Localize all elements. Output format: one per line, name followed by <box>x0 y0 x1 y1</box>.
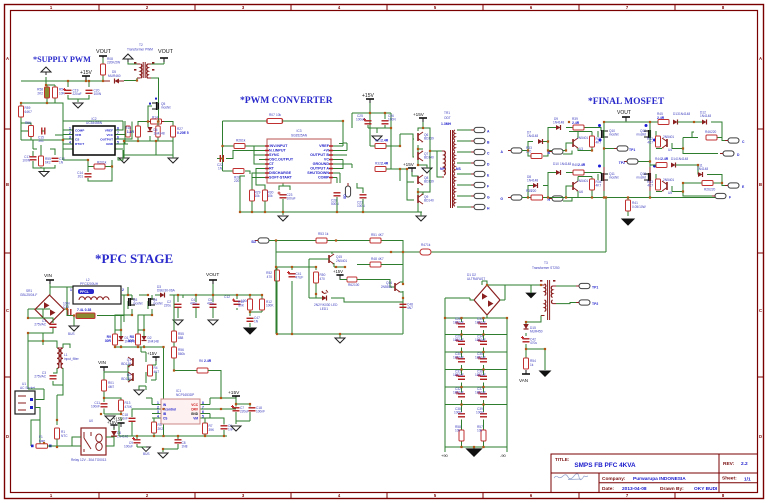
capacitor C47 1N <box>247 318 254 321</box>
svg-text:*SUPPLY PWM: *SUPPLY PWM <box>33 55 91 64</box>
capacitor C1 275VAC <box>50 324 57 327</box>
capacitor C42 470u <box>523 339 530 342</box>
svg-text:+15V: +15V <box>228 390 240 396</box>
capacitor C11 100nF <box>101 404 108 407</box>
wire bridge to T3 <box>445 281 541 318</box>
svg-text:4M7: 4M7 <box>108 385 114 389</box>
svg-text:VIN: VIN <box>44 273 53 279</box>
svg-text:R48: R48 <box>371 257 377 261</box>
svg-text:MUR450: MUR450 <box>530 330 543 334</box>
capacitor C12 100uF <box>234 301 241 304</box>
mosfet Q4 <box>149 298 156 306</box>
resistor R57b 10k <box>481 430 486 441</box>
capacitor C6 1nF <box>221 426 228 429</box>
mosfet Q5 <box>152 102 159 110</box>
resistor R52 470 <box>275 270 280 281</box>
resistor R6 2.4R <box>197 368 208 373</box>
transformer T2 <box>137 62 151 78</box>
wire SD rail y240.5 <box>269 241 403 268</box>
svg-text:470: 470 <box>267 275 273 279</box>
svg-text:GND: GND <box>191 412 199 416</box>
ground below R16/D4 <box>119 158 129 163</box>
capacitor C39 100N <box>480 414 487 417</box>
svg-text:+15V: +15V <box>147 351 157 356</box>
ground LED bottom <box>335 338 345 343</box>
resistor R21 <box>156 126 161 137</box>
svg-text:470: 470 <box>320 277 326 281</box>
svg-text:R53: R53 <box>318 232 324 236</box>
resistor R48 4K7 <box>370 262 381 267</box>
svg-text:470u: 470u <box>190 302 197 306</box>
svg-text:CT: CT <box>269 162 275 166</box>
svg-text:4: 4 <box>157 415 159 419</box>
ground T3 chain <box>540 371 551 376</box>
transistor U4 2N5401 <box>662 138 667 148</box>
svg-text:SD: SD <box>343 194 347 199</box>
svg-text:VREF: VREF <box>105 129 113 133</box>
svg-text:TITLE:: TITLE: <box>555 457 570 462</box>
transistor U5 2N5401 <box>662 181 667 191</box>
capacitor C22 1N <box>220 155 223 162</box>
svg-text:VCC: VCC <box>106 133 113 137</box>
svg-text:100N: 100N <box>454 411 462 415</box>
resistor R58b 10k <box>459 430 464 441</box>
ground below R27 <box>168 158 178 163</box>
svg-text:U6: U6 <box>579 190 583 194</box>
mosfet Q12 <box>644 130 651 138</box>
IC2 box UC3845BN <box>73 126 115 155</box>
output oval C <box>725 138 739 143</box>
svg-text:1800uF: 1800uF <box>453 356 464 360</box>
diode D10 1N4148 <box>556 170 561 175</box>
svg-text:4K7: 4K7 <box>647 184 653 188</box>
wire to D11 and E oval <box>650 165 728 196</box>
svg-text:1800uF: 1800uF <box>475 391 486 395</box>
ground BUS below R2 <box>69 326 79 331</box>
svg-text:COMP: COMP <box>318 176 330 180</box>
svg-text:mosfet: mosfet <box>609 176 619 180</box>
svg-text:PFCL: PFCL <box>80 290 89 294</box>
diode D15 MUR450 <box>524 325 529 330</box>
frame column ticks top <box>99 5 675 11</box>
output connector ovals A-H <box>471 127 485 132</box>
svg-text:1800uF: 1800uF <box>475 356 486 360</box>
svg-text:+15V: +15V <box>403 162 415 167</box>
common mode choke L1 <box>28 309 53 341</box>
svg-text:mosfet: mosfet <box>636 176 646 180</box>
svg-text:2: 2 <box>69 131 71 135</box>
capacitor C35 1800uF <box>480 359 487 362</box>
resistor R7 39K <box>203 423 208 434</box>
capacitor C25 100uF <box>365 121 372 124</box>
resistor R10 80K <box>248 299 253 310</box>
svg-text:VOUT: VOUT <box>206 272 219 278</box>
transistor Q2 BD140 <box>128 372 133 382</box>
svg-text:220: 220 <box>531 189 537 193</box>
mosfet Q3 <box>129 298 136 306</box>
ground below C47 black <box>244 328 256 334</box>
resistor R2 shunt <box>76 313 95 319</box>
frame row letters <box>6 56 762 439</box>
svg-text:10k: 10k <box>276 113 282 117</box>
svg-text:2N5401: 2N5401 <box>663 135 674 139</box>
svg-text:A: A <box>6 56 9 61</box>
svg-text:2013-04-08: 2013-04-08 <box>622 486 647 492</box>
svg-text:R14: R14 <box>152 116 158 120</box>
svg-text:1k: 1k <box>427 243 431 247</box>
resistor R28 220 <box>233 169 244 174</box>
bottom rail <box>240 176 422 215</box>
svg-text:NS: NS <box>456 167 461 171</box>
svg-text:1N: 1N <box>218 167 223 171</box>
bridge rectifier SR1 <box>35 295 64 324</box>
svg-text:2N5401: 2N5401 <box>663 178 674 182</box>
svg-text:*PWM CONVERTER: *PWM CONVERTER <box>240 95 334 106</box>
wire VIN to bridge/L2 <box>28 284 128 341</box>
resistor R13 470K <box>119 400 124 411</box>
wire socket to fuse/relay <box>31 389 44 446</box>
resistor R27 <box>171 126 176 137</box>
svg-text:2N5551: 2N5551 <box>381 285 392 289</box>
capacitor C23 100uF <box>280 195 287 198</box>
diode D11 1N4148 <box>698 172 703 177</box>
svg-text:220: 220 <box>711 130 717 134</box>
frame row ticks left and right <box>5 129 764 377</box>
svg-text:VOUT: VOUT <box>96 49 112 55</box>
svg-text:47UF: 47UF <box>296 276 304 280</box>
capacitor C37 1800uF <box>480 394 487 397</box>
supply arrow <box>41 67 51 75</box>
svg-text:201: 201 <box>78 175 84 179</box>
svg-text:470K: 470K <box>125 405 133 409</box>
svg-text:SG3525AN: SG3525AN <box>291 134 308 138</box>
svg-text:TP1: TP1 <box>592 286 598 290</box>
svg-text:RT: RT <box>269 167 275 171</box>
svg-text:1k: 1k <box>325 232 329 236</box>
svg-text:INV.INPUT: INV.INPUT <box>270 144 289 148</box>
svg-text:10k: 10k <box>268 194 274 198</box>
resistor R55 divider <box>174 295 197 371</box>
svg-text:UC3845BN: UC3845BN <box>86 121 103 125</box>
ground BUS below C9 <box>142 447 151 452</box>
svg-text:7.4L 0.38: 7.4L 0.38 <box>77 308 91 312</box>
svg-text:1: 1 <box>69 127 71 131</box>
svg-text:2N5401: 2N5401 <box>577 136 588 140</box>
svg-text:OUTPUT A: OUTPUT A <box>310 167 329 171</box>
svg-text:+90: +90 <box>441 453 449 458</box>
mosfet Q11 <box>602 173 609 181</box>
capacitor C15 <box>42 128 45 135</box>
resistor R15 <box>126 126 131 137</box>
svg-text:500N: 500N <box>331 202 339 206</box>
svg-text:220K/2W: 220K/2W <box>107 61 120 65</box>
svg-text:2.2: 2.2 <box>741 461 748 467</box>
wire Q11/Q13 <box>545 171 715 198</box>
svg-text:SYNC: SYNC <box>269 153 280 157</box>
resistor R44 2.4R <box>656 163 667 168</box>
svg-text:input_filter: input_filter <box>64 357 80 361</box>
svg-text:6: 6 <box>202 410 204 414</box>
svg-text:4K7: 4K7 <box>596 184 602 188</box>
svg-text:1.4R: 1.4R <box>127 130 135 134</box>
transistor Q8 BD139 <box>418 175 423 185</box>
diode D12 1N4148 <box>702 120 707 125</box>
capacitor C38 100N <box>458 414 465 417</box>
svg-text:1N4148: 1N4148 <box>700 114 711 118</box>
resistor R54 1k <box>524 358 529 369</box>
svg-text:1k: 1k <box>242 139 246 143</box>
relay U0 <box>81 428 106 455</box>
capacitor C7 220uF <box>233 408 240 411</box>
capacitor C19 220uF <box>65 90 72 93</box>
frame column ticks bottom <box>99 493 675 499</box>
resistor R07 10k <box>267 119 282 124</box>
resistor R08 220K/2W <box>101 64 106 75</box>
resistor R58 <box>45 87 50 98</box>
svg-text:2.4R: 2.4R <box>381 162 389 166</box>
svg-text:mosfet: mosfet <box>161 106 171 110</box>
phase A input oval <box>508 148 522 153</box>
resistor R36 4K7 <box>590 179 595 190</box>
wire rail y252 <box>276 252 403 254</box>
svg-text:100: 100 <box>354 283 360 287</box>
svg-text:2.4R: 2.4R <box>381 139 389 143</box>
svg-text:B: B <box>759 182 762 187</box>
fuse F1 <box>36 444 48 449</box>
resistor R41 0.05/10W <box>627 198 629 217</box>
resistor R57 <box>53 87 58 98</box>
resistor R29 10k <box>250 190 255 201</box>
svg-text:Sheet:: Sheet: <box>722 476 737 482</box>
phase B input oval <box>508 195 522 200</box>
ground below C19/C20 <box>73 103 83 108</box>
gate drive R9/D1 R8/D2 <box>115 309 164 347</box>
svg-text:1: 1 <box>157 401 159 405</box>
capacitor C18c 100nF <box>249 408 256 411</box>
capacitor C21 100N <box>360 195 367 198</box>
svg-text:TP2: TP2 <box>592 302 598 306</box>
svg-text:8: 8 <box>117 127 119 131</box>
svg-text:275VAC: 275VAC <box>34 323 46 327</box>
IC3 pin stubs right <box>331 121 352 183</box>
transistor Q1 BD139 <box>128 357 133 367</box>
svg-text:Transformer PWM: Transformer PWM <box>127 48 153 52</box>
inductor L2 PFC3200UH <box>73 286 121 304</box>
svg-text:+15V: +15V <box>333 269 343 274</box>
svg-text:T2: T2 <box>139 43 143 47</box>
IC2 outer wire box <box>63 121 123 160</box>
wire VOUT top rail <box>604 121 650 129</box>
transistor U6 2N5401 <box>573 181 578 191</box>
IC2 pin stub wires <box>63 121 132 149</box>
svg-text:6K2: 6K2 <box>45 161 51 165</box>
svg-text:D: D <box>6 434 9 439</box>
ground bank bottom <box>467 449 481 456</box>
svg-text:A: A <box>759 56 762 61</box>
svg-text:DSEI30-06A: DSEI30-06A <box>157 289 176 293</box>
svg-text:BD140: BD140 <box>121 377 131 381</box>
resistor R45 2.4R <box>658 120 669 125</box>
svg-text:100n: 100n <box>63 302 70 306</box>
svg-text:R6: R6 <box>199 359 203 363</box>
diode D5 MUR460 <box>103 80 124 82</box>
svg-text:4K7: 4K7 <box>154 370 160 374</box>
svg-text:GND: GND <box>106 142 114 146</box>
capacitor C16 1N <box>52 158 59 161</box>
svg-text:888: 888 <box>178 336 184 340</box>
cap bank rails <box>445 318 507 452</box>
svg-text:+VI: +VI <box>323 149 329 153</box>
capacitor C3 275VAC <box>50 376 57 379</box>
resistor R55 <box>39 156 44 166</box>
svg-text:7: 7 <box>202 406 204 410</box>
svg-text:VOUT: VOUT <box>158 49 174 55</box>
svg-text:GROUND: GROUND <box>313 162 330 166</box>
wires Q6/Q7 <box>400 122 437 164</box>
capacitor C34 1800uF <box>480 341 487 344</box>
svg-text:1N4148: 1N4148 <box>527 134 538 138</box>
svg-text:SMPS FB PFC 4KVA: SMPS FB PFC 4KVA <box>574 462 636 469</box>
svg-text:0.20E 5: 0.20E 5 <box>177 131 189 135</box>
svg-text:D10: D10 <box>553 162 559 166</box>
capacitor C28 1800uF <box>458 324 465 327</box>
wire B to driver <box>522 173 601 202</box>
capacitor C2 220u <box>175 304 182 307</box>
resistor R20 1k <box>88 160 112 167</box>
svg-text:1N4148: 1N4148 <box>154 132 165 136</box>
ground center bottom <box>158 453 168 458</box>
TR1 secondary tap wires <box>457 130 474 207</box>
svg-text:80K: 80K <box>238 304 245 308</box>
capacitor C36 1800uF <box>480 376 487 379</box>
wire T3 secondary to TP ovals <box>556 286 579 304</box>
wire R2 row <box>67 309 124 326</box>
svg-text:1: 1 <box>70 288 72 292</box>
capacitor C8 1N8 <box>175 440 182 443</box>
svg-text:7: 7 <box>117 131 119 135</box>
svg-text:2.4R: 2.4R <box>578 163 586 167</box>
svg-text:100nF: 100nF <box>91 405 100 409</box>
svg-text:C: C <box>759 308 762 313</box>
svg-text:TP2: TP2 <box>619 161 625 165</box>
resistor R12 100K <box>260 299 265 310</box>
svg-text:+15V: +15V <box>413 112 425 117</box>
svg-text:SD: SD <box>251 240 256 244</box>
capacitor C28 500N <box>334 193 341 196</box>
capacitor C29 1800uF <box>458 341 465 344</box>
svg-text:LED1: LED1 <box>320 307 328 311</box>
svg-text:1800uF: 1800uF <box>453 373 464 377</box>
resistor R30 10k <box>263 190 268 201</box>
wire VOUT to R08 <box>102 58 104 81</box>
capacitor C14 <box>88 167 112 182</box>
svg-text:U4: U4 <box>668 148 672 152</box>
svg-text:IC3: IC3 <box>297 129 302 133</box>
diode D8 1N4148 <box>533 183 538 188</box>
resistor R47b 220 <box>702 181 713 186</box>
svg-text:100N: 100N <box>22 159 30 163</box>
svg-text:DRV: DRV <box>191 408 199 412</box>
svg-text:T3: T3 <box>544 261 548 265</box>
capacitor C31 1800uF <box>458 376 465 379</box>
title block frame <box>551 454 758 493</box>
svg-text:1800uF: 1800uF <box>475 338 486 342</box>
transformer T3 <box>541 280 556 320</box>
resistor R46 220 <box>706 135 717 140</box>
capacitor C32 1800uF <box>458 394 465 397</box>
resistor R01 4M7 <box>102 380 107 391</box>
svg-text:64K7: 64K7 <box>25 110 33 114</box>
svg-text:VCC: VCC <box>191 403 198 407</box>
ground below C7 <box>231 426 241 431</box>
svg-text:VM: VM <box>193 417 198 421</box>
svg-text:G: G <box>500 197 503 201</box>
svg-text:275VAC: 275VAC <box>34 375 46 379</box>
IC1 box NCP1653DP <box>146 398 221 418</box>
resistor R51 4K7 <box>370 238 381 243</box>
svg-text:R56: R56 <box>25 121 31 125</box>
ground bottom <box>416 216 426 221</box>
resistor R59 <box>19 106 24 117</box>
mosfet Q10 <box>602 130 609 138</box>
svg-text:30R: 30R <box>128 339 135 343</box>
svg-text:220: 220 <box>234 179 240 183</box>
resistor R31 2.4R <box>375 144 386 149</box>
svg-text:1800uF: 1800uF <box>475 321 486 325</box>
wire long drop to PFC rail <box>436 198 606 253</box>
svg-text:1N4148: 1N4148 <box>677 157 688 161</box>
svg-text:VOUT: VOUT <box>617 110 631 116</box>
svg-text:REV:: REV: <box>723 461 735 467</box>
svg-text:VC: VC <box>324 158 329 162</box>
svg-text:R51: R51 <box>371 233 377 237</box>
svg-text:VAN: VAN <box>519 378 528 383</box>
svg-text:mosfet: mosfet <box>133 302 143 306</box>
svg-text:BUS: BUS <box>143 452 150 456</box>
wire fuse/NTC to relay <box>47 417 114 446</box>
resistor R56 <box>29 126 34 137</box>
test point TP1 out <box>576 283 590 288</box>
svg-text:C: C <box>6 308 9 313</box>
capacitor C30 1800uF <box>458 359 465 362</box>
svg-text:R07: R07 <box>269 113 275 117</box>
resistor R3 2K2 <box>152 422 157 433</box>
svg-text:1800uF: 1800uF <box>475 373 486 377</box>
resistor R37 4K7 <box>590 136 595 147</box>
VAN terminal <box>522 370 530 374</box>
svg-text:100nF: 100nF <box>256 410 265 414</box>
svg-text:F: F <box>487 184 489 188</box>
svg-text:0.05/10W: 0.05/10W <box>632 205 646 209</box>
svg-text:ULTRAFAST: ULTRAFAST <box>467 277 485 281</box>
transistor Q14 2N5551 <box>395 282 400 292</box>
resistor R4 4K7 <box>148 365 153 376</box>
ground below C25/C26 <box>372 136 382 141</box>
svg-text:-90: -90 <box>500 453 507 458</box>
svg-text:VIN: VIN <box>98 360 107 366</box>
svg-text:1N4148: 1N4148 <box>697 167 708 171</box>
svg-text:Date:: Date: <box>602 486 614 492</box>
capacitor C48 4N7 <box>400 304 407 307</box>
svg-text:5: 5 <box>202 415 204 419</box>
svg-text:100uF: 100uF <box>124 445 133 449</box>
ground arrow sideways T3 <box>526 293 536 298</box>
ground below R41 <box>622 219 634 225</box>
svg-text:220u: 220u <box>164 304 171 308</box>
svg-text:OSC.OUTPUT: OSC.OUTPUT <box>269 158 294 162</box>
test point TP1 <box>614 146 628 151</box>
output oval D <box>720 151 734 156</box>
